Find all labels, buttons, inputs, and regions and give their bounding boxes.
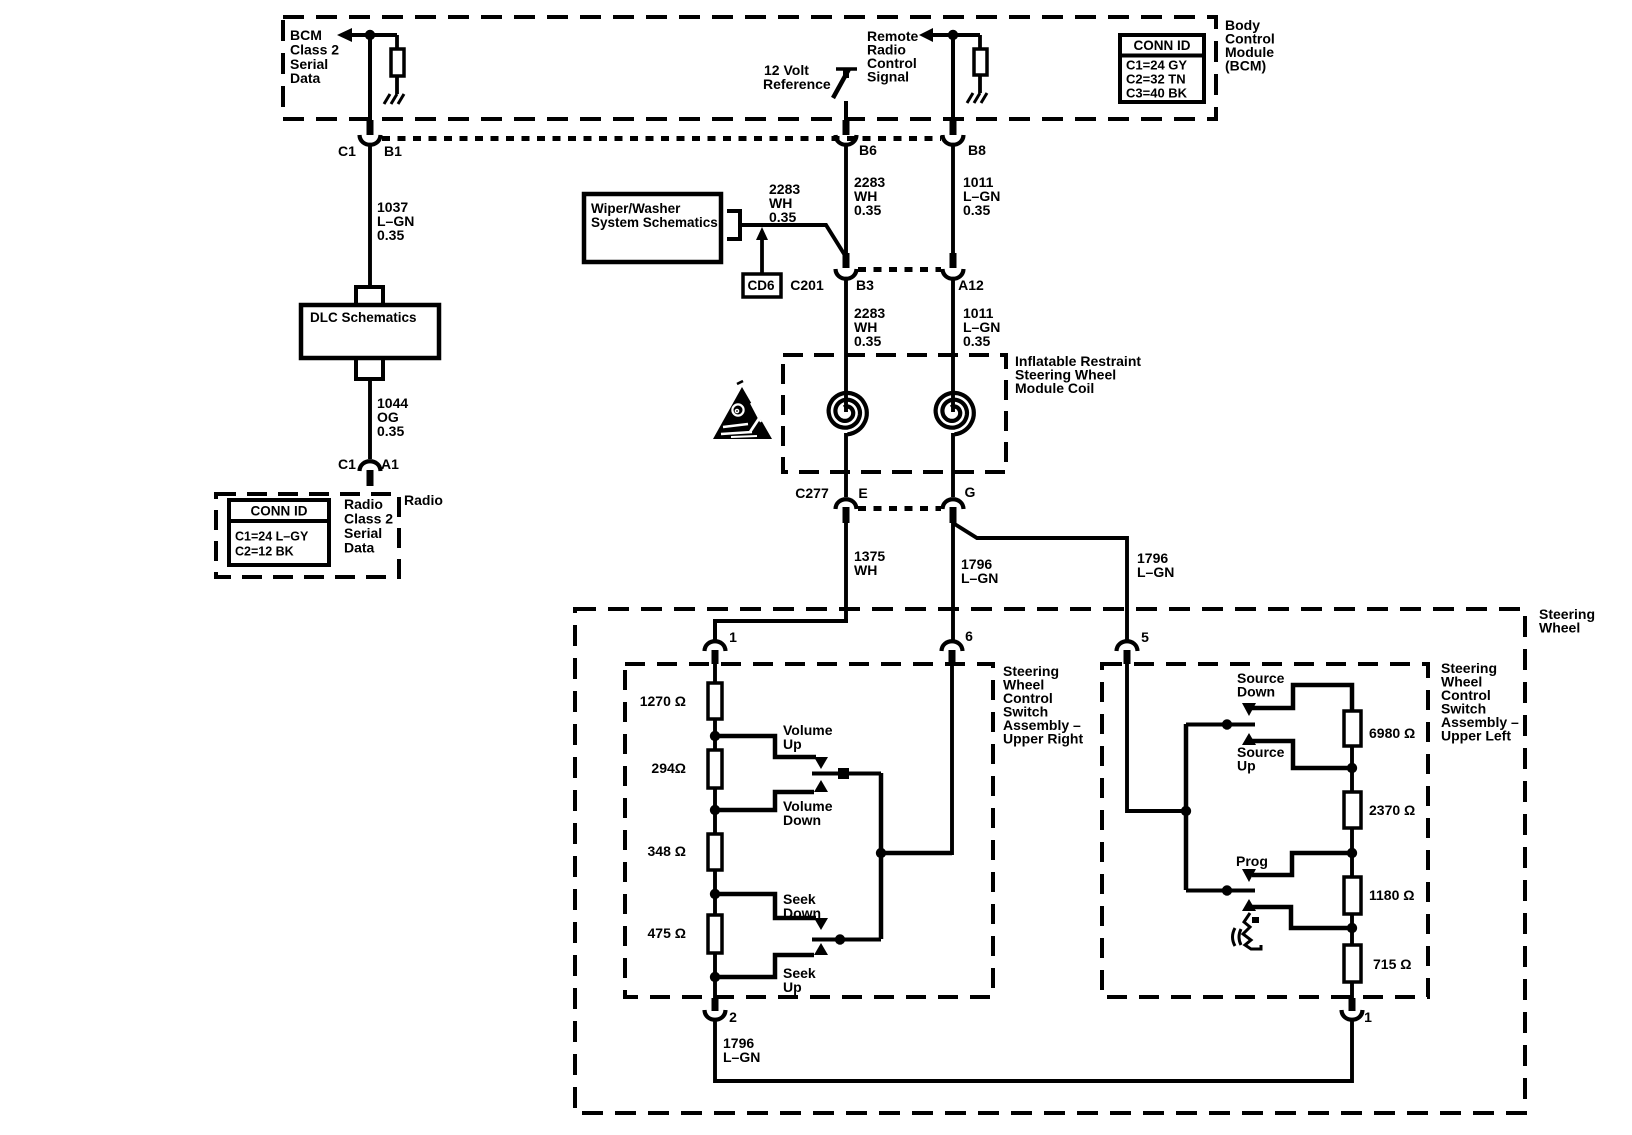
svg-text:L–GN: L–GN xyxy=(723,1049,760,1065)
wire bus to pin 6 xyxy=(881,851,952,856)
svg-text:Upper Right: Upper Right xyxy=(1003,731,1083,747)
svg-text:5: 5 xyxy=(1141,629,1149,645)
node bus junction (upper left) xyxy=(1181,806,1191,816)
node contact dot volume xyxy=(838,768,849,779)
wire source up branch xyxy=(1252,741,1350,768)
node junction voice xyxy=(1347,923,1357,933)
svg-text:C201: C201 xyxy=(790,277,824,293)
pin 1 male stub (upper left) xyxy=(1349,998,1356,1011)
box DLC Schematics xyxy=(301,305,439,358)
svg-text:475 Ω: 475 Ω xyxy=(648,925,686,941)
wire pin 6 vertical xyxy=(950,664,954,855)
resistor 6980 ohm xyxy=(1344,711,1361,746)
svg-text:Up: Up xyxy=(1237,758,1256,774)
connector C277/E female xyxy=(836,499,857,509)
node junction remote radio xyxy=(948,30,958,40)
resistor BCM terminating (left) xyxy=(391,49,404,76)
connector C201/B3 female xyxy=(836,269,857,279)
node bus junction xyxy=(876,848,886,858)
resistor 715 ohm xyxy=(1344,945,1361,982)
svg-text:B3: B3 xyxy=(856,277,874,293)
svg-text:C1: C1 xyxy=(338,456,356,472)
pin G male stub xyxy=(950,507,957,523)
svg-text:0.35: 0.35 xyxy=(769,209,796,225)
wire 1037 L-GN to DLC xyxy=(368,146,372,287)
svg-text:Down: Down xyxy=(783,812,821,828)
ground chassis (right BCM) xyxy=(967,93,987,103)
wire to terminating resistor (left) xyxy=(395,35,399,49)
svg-text:0.35: 0.35 xyxy=(854,202,881,218)
svg-text:0.35: 0.35 xyxy=(377,423,404,439)
svg-text:294Ω: 294Ω xyxy=(651,760,686,776)
svg-text:A12: A12 xyxy=(958,277,984,293)
wire 2283 WH from wiper/washer xyxy=(740,225,846,257)
connector A12 female xyxy=(943,269,964,279)
wire CD6 arrow stem xyxy=(760,239,764,274)
svg-text:E: E xyxy=(858,485,867,501)
wire 1011 L-GN B8 to A12 xyxy=(951,146,955,256)
coil clockspring (left) xyxy=(829,393,867,434)
wire voice branch xyxy=(1252,907,1350,928)
svg-text:Prog: Prog xyxy=(1236,853,1268,869)
switch arrow Source Down xyxy=(1242,703,1256,716)
svg-text:Upper Left: Upper Left xyxy=(1441,728,1511,744)
wire resistor to ground (right) xyxy=(978,75,982,93)
svg-text:WH: WH xyxy=(854,562,877,578)
connector 5 female xyxy=(1117,641,1138,651)
svg-text:B1: B1 xyxy=(384,143,402,159)
svg-text:C277: C277 xyxy=(795,485,829,501)
wire 1044 OG to radio xyxy=(368,379,372,459)
Inflatable Restraint Steering Wheel Module Coil dashed box xyxy=(783,355,1006,472)
wire chain segment xyxy=(713,870,717,915)
node junction source up xyxy=(1347,763,1357,773)
svg-text:Up: Up xyxy=(783,736,802,752)
wire 1011 L-GN A12 to coil xyxy=(951,280,955,412)
connector B8 female xyxy=(943,135,964,145)
resistor 348 ohm xyxy=(708,834,722,870)
svg-text:C2=32 TN: C2=32 TN xyxy=(1126,72,1186,87)
svg-text:System Schematics: System Schematics xyxy=(591,215,718,230)
wire coil left to C277 E xyxy=(844,433,848,497)
wire chain to pin 1 xyxy=(1350,982,1354,999)
node junction BCM serial xyxy=(365,30,375,40)
svg-text:348 Ω: 348 Ω xyxy=(648,843,686,859)
svg-text:Down: Down xyxy=(1237,684,1275,700)
CONN ID table (Radio) xyxy=(229,500,329,565)
svg-text:(BCM): (BCM) xyxy=(1225,58,1266,74)
wire chain segment xyxy=(1350,746,1354,792)
wire seek switch contact xyxy=(812,938,881,942)
wire chain segment xyxy=(713,719,717,750)
wire pin 5 to bus (upper left) xyxy=(1127,664,1186,811)
wire 1375 WH xyxy=(844,523,848,621)
arrow BCM Class 2 Serial Data xyxy=(337,28,352,42)
wire resistor to ground (left) xyxy=(395,76,399,94)
connector 2 female xyxy=(705,1010,726,1020)
connector C1/B1 female xyxy=(360,135,381,145)
svg-text:0.35: 0.35 xyxy=(854,333,881,349)
pin B6 male stub xyxy=(843,120,850,135)
svg-text:2: 2 xyxy=(729,1009,737,1025)
connector 1 female (upper right assembly) xyxy=(705,641,726,651)
resistor BCM terminating (right) xyxy=(974,49,987,75)
warning triangle airbag caution xyxy=(713,381,772,439)
pin E male stub xyxy=(843,507,850,523)
Steering Wheel Control Switch Assembly Upper Left dashed box xyxy=(1102,664,1428,997)
svg-text:Reference: Reference xyxy=(763,76,831,92)
node contact dot source xyxy=(1222,719,1232,729)
box Wiper/Washer System Schematics xyxy=(584,194,721,262)
wire 1796 L-GN return (bottom) xyxy=(715,1021,1352,1081)
wire B1 vertical inside BCM xyxy=(368,35,372,120)
svg-text:CONN ID: CONN ID xyxy=(251,503,308,518)
resistor 2370 ohm xyxy=(1344,792,1361,828)
wire source switch contact xyxy=(1186,723,1255,727)
pin A1 male stub xyxy=(367,470,374,486)
svg-text:1180 Ω: 1180 Ω xyxy=(1369,887,1415,903)
svg-text:L–GN: L–GN xyxy=(961,570,998,586)
node junction volume up xyxy=(710,731,720,741)
svg-text:L–GN: L–GN xyxy=(1137,564,1174,580)
CONN ID table (BCM) xyxy=(1120,35,1204,102)
svg-text:B8: B8 xyxy=(968,142,986,158)
resistor 294 ohm xyxy=(708,750,722,788)
svg-text:0.35: 0.35 xyxy=(963,202,990,218)
switch arrow Seek Down xyxy=(814,918,828,930)
wire chain segment xyxy=(1350,914,1354,945)
svg-text:Data: Data xyxy=(344,540,375,556)
wire 2283 WH C201 to coil xyxy=(844,280,848,412)
icon voice recognition xyxy=(1233,913,1262,949)
pin B3 male stub xyxy=(843,253,850,268)
wire to terminating resistor (right) xyxy=(978,35,982,49)
wire B8 vertical inside BCM xyxy=(951,35,955,120)
wire elbow to connector 1 xyxy=(715,621,848,640)
wire input bus (upper left) xyxy=(1184,724,1189,890)
node junction volume down xyxy=(710,805,720,815)
svg-text:DLC Schematics: DLC Schematics xyxy=(310,310,417,325)
svg-text:Signal: Signal xyxy=(867,69,909,85)
wire B6 vertical inside BCM xyxy=(844,101,848,120)
switch arrow Source Up xyxy=(1242,733,1256,745)
node junction seek down xyxy=(710,889,720,899)
svg-text:0.35: 0.35 xyxy=(963,333,990,349)
pin B8 male stub xyxy=(950,120,957,135)
pin 2 male stub xyxy=(712,998,719,1011)
switch arrow Volume Up xyxy=(814,757,828,769)
svg-text:715 Ω: 715 Ω xyxy=(1373,956,1411,972)
svg-text:CD6: CD6 xyxy=(747,278,774,293)
reference tag CD6 xyxy=(743,274,781,297)
svg-text:Module Coil: Module Coil xyxy=(1015,380,1094,396)
svg-text:Down: Down xyxy=(783,905,821,921)
Steering Wheel Control Switch Assembly Upper Right dashed box xyxy=(625,664,993,997)
pin 6 male stub xyxy=(949,650,956,664)
wire source down to 6980 xyxy=(1252,685,1352,711)
connector C1/A1 female xyxy=(360,461,381,471)
svg-text:Wiper/Washer: Wiper/Washer xyxy=(591,201,681,216)
svg-text:0.35: 0.35 xyxy=(377,227,404,243)
arrow Remote Radio Control Signal xyxy=(919,28,933,42)
arrow CD6 up xyxy=(756,227,768,240)
switch 12 volt reference feed xyxy=(833,69,857,98)
connector C277/G female xyxy=(943,499,964,509)
connector bracket wiper/washer xyxy=(727,211,740,239)
switch arrow Volume Down xyxy=(814,780,828,792)
svg-text:6980 Ω: 6980 Ω xyxy=(1369,725,1415,741)
svg-text:CONN ID: CONN ID xyxy=(1134,38,1191,53)
connector 1 female (upper left) xyxy=(1342,1010,1363,1020)
wire 1796 L-GN to connector 6 xyxy=(951,523,955,640)
connector bracket DLC top xyxy=(356,287,383,304)
switch arrow Prog xyxy=(1242,869,1256,882)
switch arrow voice recognition xyxy=(1242,899,1256,911)
svg-text:Up: Up xyxy=(783,979,802,995)
wire dotted in-line connector row C201 xyxy=(858,267,941,272)
svg-text:G: G xyxy=(965,484,976,500)
svg-text:Wheel: Wheel xyxy=(1539,620,1580,636)
wire coil right to C277 G xyxy=(951,433,955,497)
svg-text:A1: A1 xyxy=(381,456,399,472)
wire 2283 WH B6 to C201 xyxy=(844,146,848,256)
wire chain segment to pin 2 xyxy=(713,953,717,999)
wire volume switch contact xyxy=(812,772,881,776)
svg-text:1: 1 xyxy=(1364,1009,1372,1025)
connector 6 female xyxy=(942,641,963,651)
pin 5 male stub xyxy=(1124,650,1131,664)
svg-text:C1=24 L–GY: C1=24 L–GY xyxy=(235,529,309,543)
svg-text:B6: B6 xyxy=(859,142,877,158)
wire BCM serial data horizontal xyxy=(350,33,397,37)
Body Control Module (BCM) dashed box xyxy=(283,17,1216,119)
wire chain segment xyxy=(713,788,717,834)
wire volume down branch xyxy=(715,792,814,810)
svg-text:Radio: Radio xyxy=(404,492,443,508)
switch arrow Seek Up xyxy=(814,943,828,955)
wire prog branch xyxy=(1252,853,1350,875)
resistor 1270 ohm xyxy=(708,683,722,719)
svg-text:1270 Ω: 1270 Ω xyxy=(640,693,686,709)
wire prog switch contact xyxy=(1186,889,1255,893)
Steering Wheel dashed box xyxy=(575,609,1525,1113)
node junction prog xyxy=(1347,848,1357,858)
svg-text:2370 Ω: 2370 Ω xyxy=(1369,802,1415,818)
node contact dot seek xyxy=(835,934,845,944)
connector B6 female xyxy=(836,135,857,145)
svg-text:C1=24 GY: C1=24 GY xyxy=(1126,58,1187,73)
wire chain segment xyxy=(1350,828,1354,877)
wire remote radio horizontal xyxy=(931,33,980,37)
wire seek up branch xyxy=(715,955,814,977)
Radio dashed box xyxy=(216,494,399,577)
ground chassis (left BCM) xyxy=(384,94,404,104)
svg-text:1: 1 xyxy=(729,629,737,645)
wire dotted in-line connector row C1 xyxy=(382,136,941,141)
resistor 1180 ohm xyxy=(1344,877,1361,914)
node junction seek up xyxy=(710,972,720,982)
svg-text:C3=40 BK: C3=40 BK xyxy=(1126,86,1188,101)
svg-text:6: 6 xyxy=(965,628,973,644)
resistor 475 ohm xyxy=(708,915,722,953)
wire pin1 to resistor chain xyxy=(713,664,717,683)
svg-text:C1: C1 xyxy=(338,143,356,159)
wire switch output bus (upper right) xyxy=(879,773,884,939)
coil clockspring (right) xyxy=(936,393,974,434)
wire seek down branch xyxy=(715,894,816,918)
connector bracket DLC bottom xyxy=(356,358,383,379)
svg-text:Data: Data xyxy=(290,70,321,86)
wire volume up branch xyxy=(715,736,816,757)
wire dotted in-line connector row C277 xyxy=(858,506,941,511)
wire 1796 L-GN branch to connector 5 xyxy=(953,523,1127,640)
pin B1 male stub xyxy=(367,120,374,135)
node contact dot prog xyxy=(1222,885,1232,895)
pin A12 male stub xyxy=(950,253,957,268)
pin 1 male stub xyxy=(712,650,719,664)
svg-text:C2=12 BK: C2=12 BK xyxy=(235,544,294,558)
